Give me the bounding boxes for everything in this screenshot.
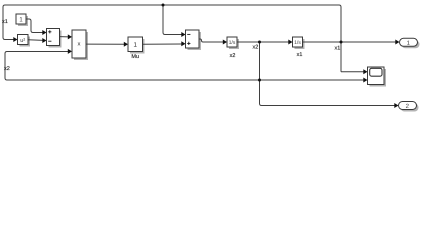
- arrowhead into sum2 - input: [181, 32, 185, 37]
- product: [72, 30, 86, 58]
- wire product to Mu: [86, 43, 125, 45]
- value label x of product block: [78, 42, 81, 45]
- sum2 minus sign: [187, 33, 190, 35]
- product shadow: [74, 32, 88, 60]
- wire sum1 to product: [60, 36, 70, 38]
- wire top x1 feedback bus: [3, 5, 341, 72]
- constant 1: [16, 14, 26, 24]
- arrowhead into outport Out2: [394, 103, 398, 108]
- arrowhead into scope input 2: [363, 78, 367, 83]
- integrator x1: [293, 37, 303, 47]
- value label 1 of gain Mu block: [134, 42, 137, 46]
- signal label x2 at node x2: [253, 45, 258, 49]
- arrowhead into sum2 + input: [181, 41, 185, 46]
- port number 1 of outport Out1: [407, 41, 410, 45]
- sum2 shadow: [188, 32, 202, 50]
- wire scope input 2: [260, 79, 365, 81]
- sum1: [47, 29, 60, 46]
- constant C1 shadow: [18, 16, 28, 26]
- arrowhead into math square block: [13, 37, 17, 42]
- value label 1/s of integrator x1: [295, 40, 301, 44]
- arrowhead into integrator x2: [223, 40, 227, 45]
- wire sum2 to integrator x2: [199, 39, 224, 42]
- junction node on top x1 feedback wire: [162, 4, 165, 7]
- wire integrator x2 out: [237, 41, 290, 43]
- value label u^2 of math square block: [21, 38, 25, 42]
- wire sum2 top drop: [163, 5, 183, 35]
- junction node x1: [340, 41, 343, 44]
- wire integrator x1 out to out1: [303, 41, 397, 43]
- arrowhead into integrator x1: [288, 40, 292, 45]
- wire x2 feedback to product: [5, 52, 260, 81]
- port number 2 of outport Out2: [406, 104, 409, 108]
- value label 1/s of integrator x2: [229, 40, 235, 44]
- out2 shadow: [401, 104, 419, 112]
- junction node x2: [258, 41, 261, 44]
- signal label x1 at node x1: [335, 46, 340, 50]
- wire constant to sum1: [26, 19, 44, 33]
- scope: [368, 67, 385, 85]
- arrowhead into scope input 1: [363, 69, 367, 74]
- gain Mu: [128, 37, 143, 52]
- arrowhead into gain Mu: [124, 42, 128, 47]
- arrowhead into product input 2: [68, 49, 72, 54]
- wire square to sum1: [28, 39, 44, 42]
- arrowhead into sum1 + input: [42, 30, 46, 35]
- square fcn shadow: [20, 37, 31, 47]
- wire x2 drop to out2: [260, 42, 396, 106]
- arrowhead into product input 1: [68, 34, 72, 39]
- sum1 minus sign: [48, 40, 51, 42]
- sum2 plus sign: [187, 42, 190, 45]
- wire Mu to sum2: [143, 43, 183, 45]
- sum1 plus sign: [48, 30, 51, 33]
- arrowhead into sum1 - input: [42, 38, 46, 43]
- integrator x1 shadow: [295, 39, 305, 49]
- signal label x1 on left feedback wire: [2, 19, 7, 23]
- block name Mu under gain block: [132, 54, 139, 58]
- outport 2: [399, 102, 417, 110]
- junction node on x2 branch wire: [258, 79, 261, 82]
- gain Mu shadow: [130, 39, 145, 54]
- scope shadow: [370, 69, 387, 87]
- wire scope input 1: [341, 71, 365, 73]
- sum1 shadow: [49, 31, 62, 48]
- signal label x2 on lower feedback wire: [4, 66, 9, 70]
- integrator x2: [227, 37, 237, 47]
- integrator x2 shadow: [229, 39, 239, 49]
- outport 1: [400, 38, 418, 46]
- sum2: [186, 30, 200, 48]
- math square u2: [18, 35, 29, 45]
- arrowhead into outport Out1: [395, 40, 399, 45]
- block name x2 under integrator x2: [230, 53, 235, 57]
- block name x1 under integrator x1: [297, 52, 302, 56]
- value label 1 of constant block: [20, 17, 23, 21]
- out1 shadow: [402, 40, 420, 48]
